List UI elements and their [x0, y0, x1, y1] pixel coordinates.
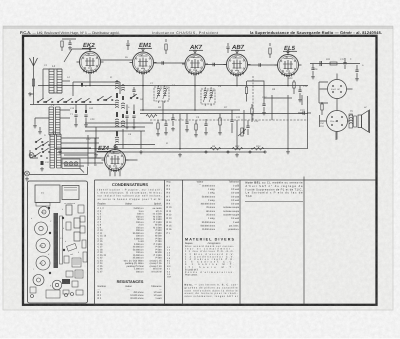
transformer T2 oscillator: [50, 134, 55, 168]
ground tone shunt: [311, 75, 315, 79]
wire left risers: [88, 135, 95, 166]
resistor R5: [146, 115, 157, 118]
power transformer top view: [35, 185, 60, 203]
ground C7: [171, 127, 175, 131]
tube EK2: [77, 48, 104, 74]
switch S3 waveband: [75, 98, 83, 103]
resistor R9 screen: [245, 87, 247, 94]
capacitor C7: [171, 118, 174, 119]
output transformer block: [349, 114, 357, 128]
wire switch bus: [30, 104, 116, 106]
capacitor C21 decoupling: [126, 111, 128, 114]
coil L2 oscillator: [115, 81, 119, 89]
wire vertical drops to bus: [96, 95, 288, 152]
switch S7: [97, 96, 105, 101]
wire earth bus: [55, 148, 307, 150]
ground C13: [262, 111, 266, 115]
resistor R13 on bus: [253, 147, 264, 150]
wire AK7 to AB7: [205, 64, 227, 66]
tuning gang: [54, 213, 59, 268]
IF can 2 top view: [74, 218, 80, 228]
wire EM1 feed: [142, 73, 144, 86]
knob row: [31, 295, 34, 298]
capacitor C30 blob: [81, 83, 83, 87]
small part c: [72, 258, 81, 267]
wire AB7 to EL5: [248, 64, 278, 66]
switch S6 osc: [130, 94, 138, 99]
tube AB7 top view: [36, 239, 50, 253]
tube AK7 top view: [36, 256, 50, 270]
tube AB7: [224, 50, 251, 76]
wire AVC vertical dashed: [252, 76, 254, 120]
wire IF1 connections: [154, 86, 161, 111]
wire EL5 feed: [287, 76, 289, 86]
wire lower bus: [96, 151, 265, 153]
wire HP excitation leads: [320, 88, 353, 90]
tube EL5: [275, 51, 302, 77]
wire HP1 bracket: [319, 82, 328, 103]
tube EZ4: [102, 146, 129, 172]
transformer HP excitation: [328, 80, 347, 99]
schematic border frame: [23, 36, 377, 305]
ground C1: [68, 46, 72, 50]
tube EM1: [130, 48, 157, 74]
small part e: [75, 270, 83, 278]
dial escutcheon: [46, 290, 60, 298]
capacitor C3 coupling: [162, 61, 163, 64]
wire IF1 secondary drop: [162, 101, 164, 120]
switch S4 range: [35, 138, 43, 143]
capacitor C14 cathode: [298, 90, 301, 91]
capacitor C18: [355, 70, 358, 71]
wire right feed: [307, 96, 309, 149]
capacitor C4 above AB7: [226, 47, 229, 48]
small part d: [66, 271, 73, 277]
switch S8: [105, 96, 113, 101]
ground tone: [355, 77, 359, 81]
transformer T1 tuning: [49, 107, 54, 135]
resistor R6 label on bus: [210, 147, 221, 150]
capacitor C16 tone: [320, 61, 321, 66]
terminal circles on bus: [205, 151, 207, 153]
wire HP link vertical: [336, 99, 338, 140]
tube EK2 top view: [33, 275, 44, 286]
antenna: [33, 66, 35, 94]
wire tone bus: [310, 63, 360, 65]
wire bottom left: [30, 167, 88, 175]
resistor R19: [195, 124, 197, 130]
ground bus mid: [178, 153, 182, 157]
ground PU: [25, 177, 29, 181]
wire mid bus 2: [140, 113, 308, 115]
wire EK2 feed: [89, 73, 91, 86]
resistor R2 top left: [61, 41, 63, 47]
capacitor C20 decoupling: [85, 110, 87, 113]
ground left lower: [38, 130, 42, 134]
wire detector drop: [179, 114, 181, 149]
switch S9: [130, 94, 138, 99]
IF transformer IF2: [201, 87, 215, 106]
wire EK2 loop: [73, 82, 120, 96]
ground bus left: [58, 150, 62, 154]
capacitor C11: [230, 120, 233, 121]
resistor R11 tone: [330, 62, 337, 65]
wire HP2 bottom drop: [335, 132, 337, 140]
capacitor C22 decoupling: [133, 111, 135, 114]
filter capacitor block top view: [62, 186, 79, 200]
chassis extra parts: [78, 205, 84, 213]
small part a: [67, 243, 77, 251]
capacitor C1: [68, 43, 71, 44]
capacitor C15: [303, 111, 304, 114]
wire EM1 to AK7: [154, 62, 186, 64]
coil L1 aerial: [49, 69, 54, 93]
resistor R18: [157, 123, 159, 129]
resistor R3 above AK7: [165, 44, 167, 50]
wire HT bus: [38, 85, 308, 87]
capacitor C2 above EM1: [126, 44, 129, 45]
resistor R4 above EL5: [269, 48, 271, 54]
wire HP field leads: [320, 115, 327, 127]
wire EK2 grid cap lead: [64, 49, 90, 62]
wire step to EL5 grid: [247, 81, 292, 98]
switch S10 range: [34, 152, 42, 157]
wire osc to bus: [117, 134, 123, 149]
wire AVC line: [150, 119, 308, 121]
potentiometer P1 volume: [241, 128, 243, 136]
resistor R12 on bus: [232, 147, 243, 150]
tube EL5 top view: [35, 222, 48, 235]
small part b: [64, 256, 69, 263]
capacitor C13: [262, 104, 265, 105]
wire T2 taps: [61, 138, 103, 163]
resistor R10 cathode EL5: [293, 82, 295, 88]
capacitor C8 coupling: [259, 63, 260, 66]
switch S1 waveband: [37, 98, 45, 103]
pickup PU: [25, 171, 30, 176]
terminal strip box: [62, 159, 80, 169]
lamp LP1: [29, 153, 34, 158]
ground T1: [33, 124, 37, 128]
resistor R1 antenna lead: [32, 79, 34, 86]
wire AB7 plate drop: [243, 110, 245, 134]
wire antenna to coil: [33, 60, 35, 66]
capacitor C17: [343, 63, 346, 64]
junctions: [162, 119, 164, 121]
resistor R7: [219, 118, 221, 125]
grounds on earth bus: [94, 153, 98, 157]
wire EL5 grid drop: [271, 95, 273, 120]
wire EZ4 pin drops: [110, 170, 120, 176]
capacitor C31 blob: [41, 161, 44, 165]
switch S5 range: [35, 145, 43, 150]
resistor R14 field: [321, 104, 323, 110]
IF can 1 top view: [66, 205, 72, 215]
capacitor C9: [185, 122, 188, 123]
transformer HP field: [327, 111, 348, 132]
IF transformer IF1: [154, 85, 169, 103]
coil L3 padder chain: [121, 85, 125, 90]
ground C31: [40, 167, 44, 171]
junction dot: [46, 157, 48, 159]
ground antenna: [28, 92, 32, 96]
wire T2 to EZ4 links: [64, 155, 88, 166]
wire AB7 feed: [236, 75, 238, 86]
wire osc verticals: [117, 80, 123, 149]
tube AZ1 top view: [39, 207, 50, 218]
ground EL5 cathode: [298, 98, 302, 102]
coil can top view: [74, 232, 80, 241]
capacitor C6 osc: [132, 90, 135, 91]
wire EM1 plate drop: [142, 86, 144, 111]
capacitor C19 decoupling: [75, 110, 77, 113]
wire EK2 to EM1: [101, 59, 133, 61]
speaker: [358, 110, 370, 134]
chassis layout box: [28, 181, 88, 303]
capacitor C23: [164, 124, 167, 125]
wire mid bus 1: [140, 109, 240, 111]
capacitor C12: [246, 126, 249, 127]
separator rules bottom section: [95, 179, 377, 181]
tube AK7: [182, 50, 208, 75]
capacitor C24 tone shunt: [311, 68, 314, 69]
wire AK7 feed: [194, 74, 196, 86]
tube EM1 top view: [52, 280, 62, 290]
switch S2 waveband: [57, 98, 65, 103]
wire EZ4 connections: [89, 158, 138, 160]
resistor R8: [251, 108, 253, 114]
capacitor C10: [204, 124, 207, 125]
wire AK7 plate drop: [194, 86, 196, 111]
wire mid bus 3: [85, 126, 145, 128]
capacitor C5 coupling: [213, 63, 214, 66]
